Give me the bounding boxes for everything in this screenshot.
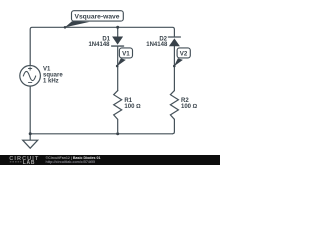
svg-text:LAB: LAB — [23, 160, 35, 165]
svg-text:V1: V1 — [122, 51, 130, 58]
svg-text:1N4148: 1N4148 — [88, 42, 110, 48]
svg-text:R1: R1 — [124, 98, 132, 104]
svg-text:1 kHz: 1 kHz — [43, 79, 59, 85]
svg-text:square: square — [43, 73, 63, 79]
svg-text:100 Ω: 100 Ω — [124, 104, 141, 110]
svg-text:V2: V2 — [180, 51, 188, 58]
svg-text:R2: R2 — [181, 98, 189, 104]
svg-text:1N4148: 1N4148 — [146, 42, 168, 48]
svg-text:http://circuitlab.com/c/574t55: http://circuitlab.com/c/574t55 — [46, 160, 96, 164]
svg-text:100 Ω: 100 Ω — [181, 104, 198, 110]
svg-text:V1: V1 — [43, 67, 51, 73]
svg-text:Vsquare-wave: Vsquare-wave — [75, 13, 120, 20]
